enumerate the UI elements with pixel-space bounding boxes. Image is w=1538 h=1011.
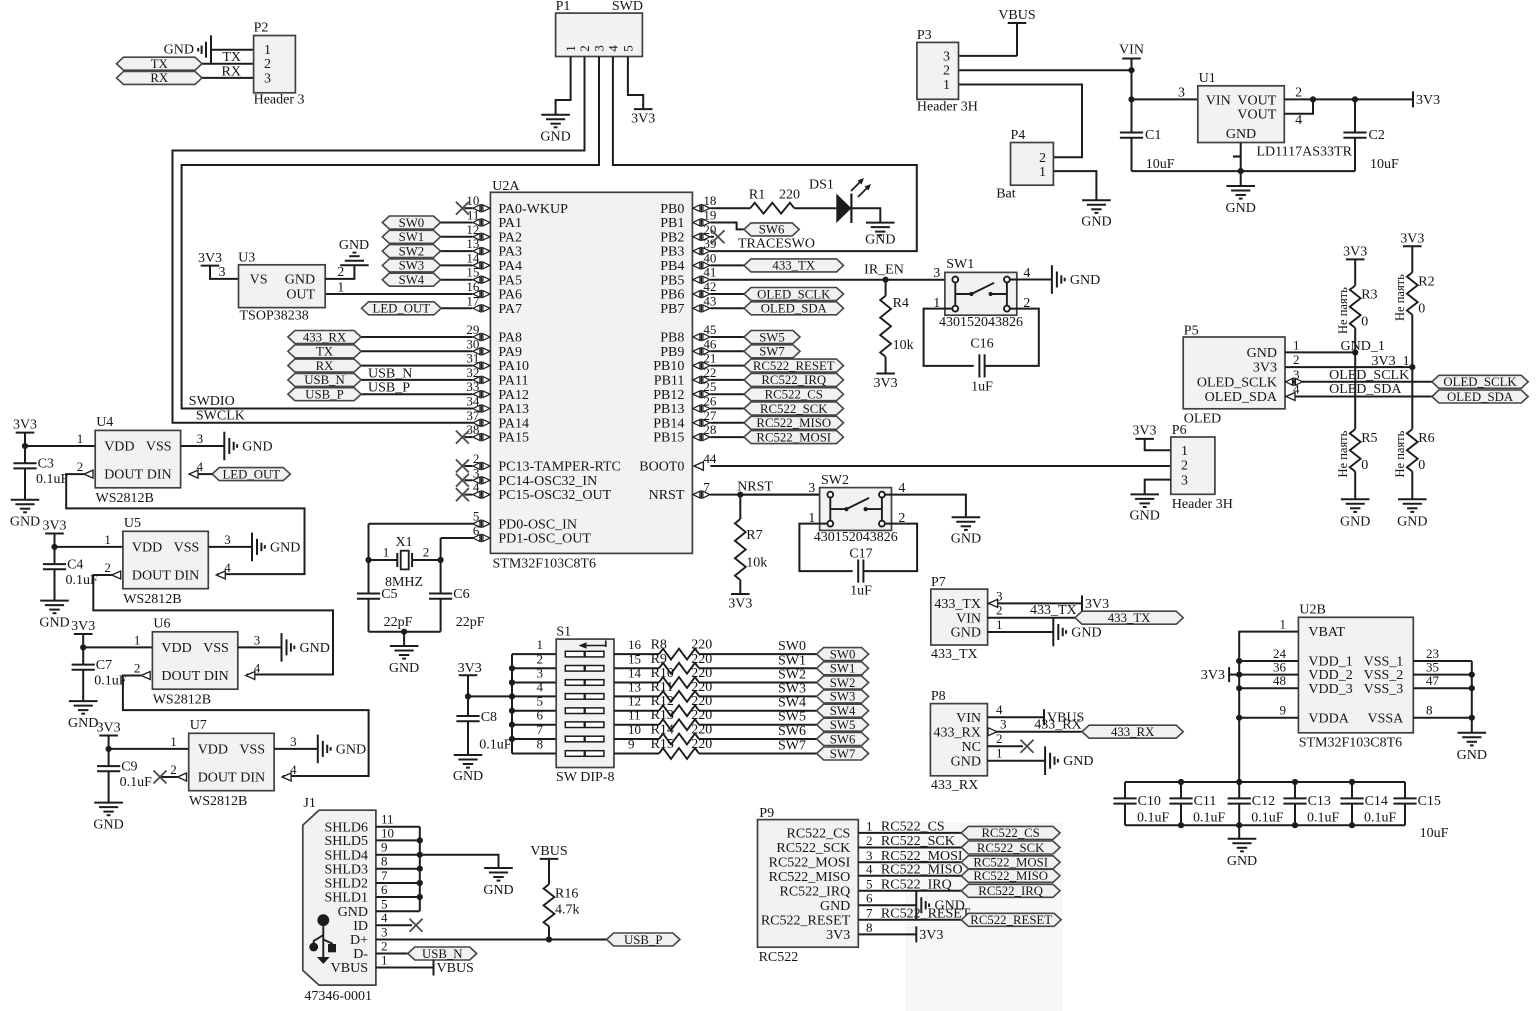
svg-text:VDD: VDD <box>104 440 134 455</box>
svg-text:SW7: SW7 <box>778 739 806 754</box>
junction U1 gnd junction <box>1238 168 1244 174</box>
wire DS1 to GND <box>851 208 880 222</box>
svg-text:0.1uF: 0.1uF <box>120 775 153 790</box>
R3 bottom lead <box>1354 328 1356 353</box>
wire 3V3 stem U6 <box>82 634 84 647</box>
svg-text:220: 220 <box>691 708 712 723</box>
junction cap top junction <box>1236 779 1242 785</box>
chip U1 <box>1198 86 1285 143</box>
wire P5 pin2 3V3_1 <box>1285 366 1412 368</box>
junction shield bus junction <box>417 880 423 886</box>
svg-text:PA3: PA3 <box>498 245 522 260</box>
wire SW2 pin4 to gnd <box>885 495 966 518</box>
svg-text:R1: R1 <box>749 188 765 203</box>
svg-text:OLED: OLED <box>1184 412 1221 427</box>
svg-text:10: 10 <box>628 722 641 737</box>
wire VDD wire 36 <box>1239 674 1298 676</box>
net flag USB_P <box>607 933 680 947</box>
svg-text:433_RX: 433_RX <box>303 330 347 344</box>
svg-text:R14: R14 <box>651 723 674 738</box>
wire PB to RC522_MISO <box>710 422 744 424</box>
svg-text:1: 1 <box>77 431 84 446</box>
svg-text:PB15: PB15 <box>653 431 684 446</box>
net flag SW5 right <box>817 718 869 732</box>
svg-text:433_TX: 433_TX <box>1030 603 1077 618</box>
svg-text:DOUT: DOUT <box>198 771 237 786</box>
wire J1 shield pin <box>376 868 420 870</box>
svg-text:SWCLK: SWCLK <box>196 409 245 424</box>
capacitor C6 <box>429 594 452 599</box>
svg-text:VIN: VIN <box>1206 93 1231 108</box>
junction VSS junction 35 <box>1469 672 1475 678</box>
junction IR_EN junction <box>883 277 889 283</box>
net flag OLED_SCLK mid <box>744 287 844 301</box>
ground at P6 <box>1130 494 1160 523</box>
svg-text:PA10: PA10 <box>498 359 529 374</box>
svg-text:PB8: PB8 <box>660 331 684 346</box>
chip U4 WS2812B <box>95 430 180 487</box>
connector P2 <box>254 36 296 93</box>
net flag SW3 <box>382 259 440 273</box>
svg-text:J1: J1 <box>303 796 315 811</box>
wire PD1 to crystal <box>441 537 473 539</box>
wire C6 column <box>440 560 442 594</box>
svg-text:RC522_MISO: RC522_MISO <box>973 869 1048 883</box>
svg-text:0.1uF: 0.1uF <box>1364 811 1397 826</box>
arrow out U7 DOUT <box>178 773 187 781</box>
wire P7 pin1 to gnd <box>988 631 1054 633</box>
junction VIN-P3 <box>1128 67 1134 73</box>
svg-text:U3: U3 <box>238 251 255 266</box>
svg-text:0.1uF: 0.1uF <box>36 472 69 487</box>
svg-text:GND: GND <box>820 899 850 914</box>
wire SW2 pin1 to C17 <box>799 524 852 572</box>
svg-text:3V3: 3V3 <box>97 721 121 736</box>
R4 top lead <box>885 280 887 296</box>
svg-text:15: 15 <box>628 651 641 666</box>
U1 GND stem <box>1240 143 1242 187</box>
net flag RC522_MISO mid <box>744 416 844 430</box>
svg-text:ID: ID <box>353 919 368 934</box>
svg-text:PA7: PA7 <box>498 302 522 317</box>
net flag SW7 right <box>817 747 869 761</box>
svg-text:7: 7 <box>381 868 388 883</box>
ground at P8 <box>1045 746 1093 775</box>
wire R15 to SW7 flag <box>699 753 817 755</box>
svg-text:SW1: SW1 <box>399 230 425 244</box>
svg-text:WS2812B: WS2812B <box>189 794 247 809</box>
connector P4 <box>1011 143 1054 186</box>
svg-text:433_RX: 433_RX <box>931 778 978 793</box>
junction cap top junction <box>1292 779 1298 785</box>
svg-text:TSOP38238: TSOP38238 <box>240 309 309 324</box>
svg-text:1: 1 <box>1181 444 1188 459</box>
svg-text:PB9: PB9 <box>660 345 684 360</box>
svg-text:C17: C17 <box>849 547 872 562</box>
svg-text:PA1: PA1 <box>498 216 522 231</box>
junction 3V3 junction U6 <box>80 644 86 650</box>
svg-text:STM32F103C8T6: STM32F103C8T6 <box>1299 736 1402 751</box>
wire P2 pin1 GND <box>211 49 254 51</box>
svg-text:P6: P6 <box>1172 423 1187 438</box>
svg-text:10uF: 10uF <box>1146 157 1175 172</box>
svg-text:C15: C15 <box>1418 794 1441 809</box>
wire 433_RX to U2A <box>361 336 472 338</box>
wire C15 top lead <box>1404 782 1406 798</box>
wire 3V3 to U3 VS <box>210 266 239 279</box>
wire C13 bottom lead <box>1294 804 1296 826</box>
junction cap bottom junction <box>1292 822 1298 828</box>
ground at C8 <box>453 755 483 784</box>
svg-text:GND: GND <box>1457 748 1487 763</box>
svg-text:VSS_3: VSS_3 <box>1364 682 1404 697</box>
svg-text:GND: GND <box>336 742 366 757</box>
svg-text:GND: GND <box>1063 754 1093 769</box>
svg-text:P7: P7 <box>931 575 946 590</box>
ground under C7 <box>68 701 98 731</box>
R16 bottom lead <box>548 927 550 940</box>
wire J1 D+ USB_P <box>376 939 607 941</box>
svg-text:8: 8 <box>1426 703 1433 718</box>
svg-text:1: 1 <box>104 532 111 547</box>
svg-text:44: 44 <box>703 451 717 466</box>
svg-text:3: 3 <box>219 265 226 280</box>
net flag 433_TX mid <box>744 259 844 273</box>
svg-text:SHLD5: SHLD5 <box>324 834 368 849</box>
wire PA5 to SW4 <box>441 279 473 281</box>
svg-text:433_RX: 433_RX <box>1111 725 1155 739</box>
junction U1 pin4 junction <box>1310 96 1316 102</box>
svg-text:430152043826: 430152043826 <box>814 530 898 545</box>
ground at U7 VSS <box>318 735 366 764</box>
power 3V3 at P6 <box>1132 424 1156 439</box>
net flag TX left <box>288 345 361 359</box>
wire U6 DOUT to U7 DIN <box>123 676 369 777</box>
junction VDD bus junction 48 <box>1236 685 1242 691</box>
wire PA3 to SW2 <box>441 250 473 252</box>
connector P9 RC522 <box>758 820 859 948</box>
svg-text:14: 14 <box>628 666 642 681</box>
net flag SW1 right <box>817 662 869 676</box>
ground at cap bank <box>1227 839 1257 869</box>
wire VSS wire 47 <box>1413 687 1472 689</box>
wire cap bank top bus <box>1125 781 1405 783</box>
wire P8 pin4 to VBUS <box>987 716 1044 718</box>
svg-text:220: 220 <box>691 694 712 709</box>
svg-text:1: 1 <box>943 78 950 93</box>
wire P5 pin3 OLED_SCLK <box>1285 381 1432 383</box>
wire PA1 to SW0 <box>441 222 473 224</box>
wire PB1 to SW6 <box>710 223 744 230</box>
wire P7 pin2 to flag <box>988 617 1075 619</box>
svg-text:USB_N: USB_N <box>368 366 412 381</box>
no-connect P8 pin2 <box>1021 740 1034 753</box>
arrow into U5 DIN <box>216 571 225 579</box>
wire R8 to SW0 flag <box>699 653 817 655</box>
svg-text:3V3: 3V3 <box>458 661 482 676</box>
wire P9 pin5 RC522_IRQ <box>858 890 961 892</box>
wire J1 shield pin <box>376 839 420 841</box>
U2A right pin names and numbers <box>639 193 717 503</box>
svg-text:SW7: SW7 <box>830 747 856 761</box>
junction crystal right node <box>438 557 444 563</box>
svg-text:SW1: SW1 <box>830 662 856 676</box>
wire PB8 SW5 <box>710 336 744 338</box>
net flag LED_OUT at U4 <box>212 467 290 481</box>
wire J1 shield pin <box>376 854 420 856</box>
wire R9 to SW1 flag <box>699 667 817 669</box>
svg-text:4: 4 <box>537 679 544 694</box>
svg-text:GND: GND <box>339 238 369 253</box>
wire C2 column <box>1354 99 1356 132</box>
svg-text:1: 1 <box>1039 165 1046 180</box>
wire S1 pin4 wire <box>512 695 556 697</box>
svg-text:P5: P5 <box>1184 324 1199 339</box>
svg-text:VDD: VDD <box>161 641 191 656</box>
junction cap top junction <box>1178 779 1184 785</box>
svg-text:TX: TX <box>151 57 169 71</box>
resistor R14 <box>651 723 713 745</box>
svg-text:220: 220 <box>691 638 712 653</box>
svg-text:3V3: 3V3 <box>1253 361 1277 376</box>
wire S1 pin8 wire <box>512 753 556 755</box>
wire P4 pin1 to GND <box>1053 171 1096 200</box>
crystal X1 8MHZ <box>397 551 412 570</box>
wire NRST net <box>710 494 830 496</box>
arrow out U4 DOUT <box>84 470 93 478</box>
wire P8 pin3 to flag <box>987 731 1082 733</box>
svg-text:WS2812B: WS2812B <box>96 491 154 506</box>
chip U2A STM32F103C8T6 <box>490 192 692 553</box>
net flag SW4 right <box>817 704 869 718</box>
svg-text:GND: GND <box>951 754 981 769</box>
junction crystal gnd junction <box>401 629 407 635</box>
svg-text:VBUS: VBUS <box>530 844 567 859</box>
wire C10 bottom lead <box>1124 804 1126 826</box>
svg-text:3: 3 <box>224 532 231 547</box>
wire P9 pin2 RC522_SCK <box>858 847 961 849</box>
svg-text:3V3: 3V3 <box>1085 597 1109 612</box>
junction 3V3 junction U7 <box>106 746 112 752</box>
net flag SW6 <box>744 223 799 237</box>
net flag USB_N left <box>288 373 361 387</box>
junction VSS junction 8 <box>1469 715 1475 721</box>
R16 top lead <box>548 859 550 884</box>
net flag RC522_RESET right <box>961 913 1061 927</box>
R6 bottom lead <box>1411 472 1413 500</box>
svg-text:2: 2 <box>1181 459 1188 474</box>
dip switch S1 <box>556 639 614 767</box>
svg-text:GND: GND <box>285 273 315 288</box>
ground at P9 <box>916 891 965 920</box>
ground at J1 <box>483 868 513 898</box>
power VBUS at J1 <box>434 960 474 977</box>
ground at DS1 <box>865 223 895 248</box>
net flag LED_OUT top <box>362 302 442 316</box>
svg-text:PD1-OSC_OUT: PD1-OSC_OUT <box>498 532 591 547</box>
svg-text:RC522_SCK: RC522_SCK <box>977 841 1045 855</box>
svg-text:5: 5 <box>537 694 544 709</box>
svg-text:11: 11 <box>628 708 641 723</box>
svg-text:0.1uF: 0.1uF <box>1137 811 1170 826</box>
net flag SW2 <box>382 244 440 258</box>
net flag OLED_SCLK right <box>1432 375 1528 389</box>
svg-text:R5: R5 <box>1361 431 1377 446</box>
resistor R11 <box>651 680 713 702</box>
capacitor C8 <box>456 716 479 721</box>
svg-text:RC522_SCK: RC522_SCK <box>760 402 828 416</box>
svg-text:2: 2 <box>1293 352 1300 367</box>
svg-text:RC522_CS: RC522_CS <box>981 826 1039 840</box>
wire C6 to bus <box>440 599 442 632</box>
svg-text:2: 2 <box>337 265 344 280</box>
svg-text:2: 2 <box>264 57 271 72</box>
svg-text:2: 2 <box>1039 151 1046 166</box>
switch SW2 <box>820 488 892 531</box>
svg-text:U7: U7 <box>190 718 207 733</box>
svg-text:PA4: PA4 <box>498 259 522 274</box>
svg-text:SHLD2: SHLD2 <box>324 877 368 892</box>
net flag OLED_SDA mid <box>744 302 844 316</box>
power VBUS at P8 <box>1044 709 1084 726</box>
svg-text:SW5: SW5 <box>759 330 785 344</box>
svg-text:3: 3 <box>996 588 1003 603</box>
wire P3 pin2 to VIN <box>959 69 1132 71</box>
arrow out U6 DOUT <box>141 672 150 680</box>
wire PB to RC522_SCK <box>710 408 744 410</box>
arrow P8 pin3 <box>988 728 997 736</box>
svg-text:13: 13 <box>628 679 641 694</box>
net flag OLED_SDA right <box>1432 390 1528 404</box>
svg-text:OLED_SDA: OLED_SDA <box>761 302 828 316</box>
wire U1 pin4 <box>1284 99 1313 113</box>
svg-text:22pF: 22pF <box>384 615 413 630</box>
svg-text:SW4: SW4 <box>830 704 856 718</box>
wire C14 bottom lead <box>1351 804 1353 826</box>
chip U3 <box>239 265 326 308</box>
chip U5 WS2812B <box>123 531 208 588</box>
svg-text:P4: P4 <box>1011 128 1026 143</box>
svg-text:3V3: 3V3 <box>1201 668 1225 683</box>
wire 3V3 to U5 VDD <box>55 546 123 548</box>
ground at U6 VSS <box>282 633 330 662</box>
svg-text:1uF: 1uF <box>850 584 872 599</box>
svg-text:RC522: RC522 <box>759 950 799 965</box>
net flag SW7 top <box>744 345 800 359</box>
R2 top lead <box>1411 246 1413 272</box>
wire C8 column <box>467 696 469 716</box>
ground at SW1 <box>1052 265 1100 294</box>
svg-text:4: 4 <box>381 910 388 925</box>
svg-text:GND: GND <box>270 540 300 555</box>
svg-text:2: 2 <box>537 651 544 666</box>
svg-text:VDD: VDD <box>198 743 228 758</box>
wire R1 to DS1 <box>794 207 836 209</box>
wire P9 pin7 RESET <box>858 919 961 921</box>
svg-text:6: 6 <box>866 891 873 906</box>
capacitor C14 <box>1340 798 1363 803</box>
svg-text:VBUS: VBUS <box>331 961 368 976</box>
svg-text:PA8: PA8 <box>498 331 522 346</box>
wire C13 top lead <box>1294 782 1296 798</box>
no-connect J1 ID <box>410 919 423 932</box>
svg-text:VDDA: VDDA <box>1308 711 1349 726</box>
wire R13 to SW5 flag <box>699 724 817 726</box>
svg-text:1: 1 <box>996 617 1003 632</box>
svg-text:0.1uF: 0.1uF <box>1251 811 1284 826</box>
capacitor C3 <box>13 463 36 468</box>
svg-text:PB13: PB13 <box>653 402 684 417</box>
wire VSS to gnd <box>1471 718 1473 733</box>
svg-text:GND: GND <box>1081 214 1111 229</box>
svg-text:VSS: VSS <box>146 440 172 455</box>
svg-text:SWD: SWD <box>612 0 643 14</box>
ground at R5 <box>1340 499 1370 529</box>
wire PB to RC522_CS <box>710 393 744 395</box>
wire SW1 pin4 to gnd <box>1010 279 1052 281</box>
capacitor C1 <box>1120 128 1161 143</box>
wire PA4 to SW3 <box>441 264 473 266</box>
wire P9 pin8 3V3 <box>858 933 916 935</box>
wire C11 bottom lead <box>1180 804 1182 826</box>
svg-text:OLED_SDA: OLED_SDA <box>1447 390 1514 404</box>
no-connect PA0 <box>456 202 469 215</box>
wire PB4 to 433_TX flag <box>710 264 744 266</box>
net flag 433_RX right <box>1082 725 1183 739</box>
svg-text:7: 7 <box>866 905 873 920</box>
svg-text:PB12: PB12 <box>653 388 684 403</box>
svg-text:GND: GND <box>951 626 981 641</box>
svg-text:2: 2 <box>1295 85 1302 100</box>
svg-text:RC522_MOSI: RC522_MOSI <box>973 856 1048 870</box>
svg-text:8: 8 <box>866 920 873 935</box>
wire SW2 pin2 to C17 <box>864 524 917 572</box>
wire S1 pin7 wire <box>512 738 556 740</box>
wire S1 pin16 to R8 <box>614 653 659 655</box>
svg-text:16: 16 <box>628 637 642 652</box>
svg-text:2: 2 <box>170 762 177 777</box>
svg-text:430152043826: 430152043826 <box>939 315 1023 330</box>
wire VSS wire 8 <box>1413 717 1472 719</box>
wire P3 pin1 to P4 <box>959 85 1083 158</box>
wire cap to gnd U6 <box>82 670 84 701</box>
svg-text:R2: R2 <box>1418 274 1434 289</box>
power 3V3 at R4 <box>874 374 898 392</box>
minus mark <box>1233 155 1240 157</box>
svg-text:R10: R10 <box>651 666 674 681</box>
svg-text:DIN: DIN <box>240 771 265 786</box>
USB icon <box>309 914 336 964</box>
resistor R4 <box>880 296 913 357</box>
net flag RC522_IRQ right <box>961 884 1060 898</box>
svg-text:GND: GND <box>242 440 272 455</box>
resistor R6 <box>1407 429 1435 473</box>
svg-text:PA13: PA13 <box>498 402 529 417</box>
wire P5 pin1 GND_1 <box>1285 351 1355 353</box>
junction C2 top junction <box>1352 96 1358 102</box>
svg-text:RC522_SCK: RC522_SCK <box>881 834 955 849</box>
svg-text:Не паять: Не паять <box>1336 430 1350 477</box>
wire USB_N to U2A <box>361 379 472 381</box>
svg-text:C1: C1 <box>1145 128 1161 143</box>
wire U3 OUT to PA6 <box>325 293 472 295</box>
wire U7 DOUT stub <box>160 776 178 778</box>
svg-text:VBUS: VBUS <box>437 961 474 976</box>
arrow into U4 DIN <box>189 470 198 478</box>
svg-text:8: 8 <box>537 737 544 752</box>
svg-text:PB5: PB5 <box>660 273 684 288</box>
svg-text:PB10: PB10 <box>653 359 684 374</box>
